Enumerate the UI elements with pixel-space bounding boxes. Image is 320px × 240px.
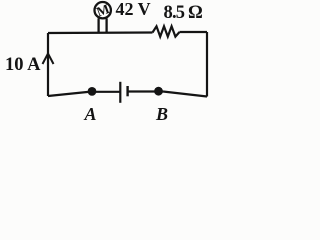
resistor R1: zigzag — [153, 26, 180, 36]
wire: node B to battery short plate — [129, 90, 164, 92]
wire: left side — [47, 33, 49, 96]
current direction arrow (10 A) on left wire — [43, 54, 54, 65]
battery B1: long plate — [119, 82, 121, 103]
battery B1: short plate — [126, 86, 128, 96]
wire: top side, left corner to resistor — [48, 31, 153, 34]
wire: right side — [206, 32, 208, 97]
wire: bottom-left, corner to node A — [48, 92, 92, 97]
wire: top-right, resistor to corner — [180, 31, 208, 33]
svg-text:8.5 Ω: 8.5 Ω — [164, 3, 203, 23]
svg-text:B: B — [155, 104, 168, 124]
motor M1: circle body with two leads to top wire — [95, 2, 111, 33]
wire: bottom-right, corner to node B — [163, 92, 207, 97]
svg-text:10 A: 10 A — [5, 55, 41, 75]
wire: battery long plate to node A — [88, 91, 120, 93]
node A: junction dot — [88, 87, 97, 96]
svg-text:42 V: 42 V — [116, 0, 151, 19]
node B: junction dot — [154, 87, 163, 96]
svg-text:A: A — [84, 104, 97, 124]
